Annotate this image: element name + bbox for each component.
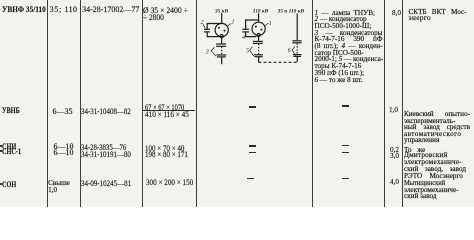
svg-text:1: 1 bbox=[232, 19, 235, 25]
svg-text:4: 4 bbox=[242, 34, 245, 41]
svg-text:1: 1 bbox=[269, 21, 272, 27]
svg-text:3: 3 bbox=[205, 49, 209, 55]
svg-text:6: 6 bbox=[288, 48, 291, 54]
svg-text:2: 2 bbox=[201, 20, 204, 26]
svg-text:35 кВ: 35 кВ bbox=[214, 9, 228, 15]
svg-text:5: 5 bbox=[246, 49, 249, 55]
svg-text:110 кВ: 110 кВ bbox=[253, 9, 269, 15]
svg-text:35 и 110 кВ: 35 и 110 кВ bbox=[277, 9, 305, 15]
